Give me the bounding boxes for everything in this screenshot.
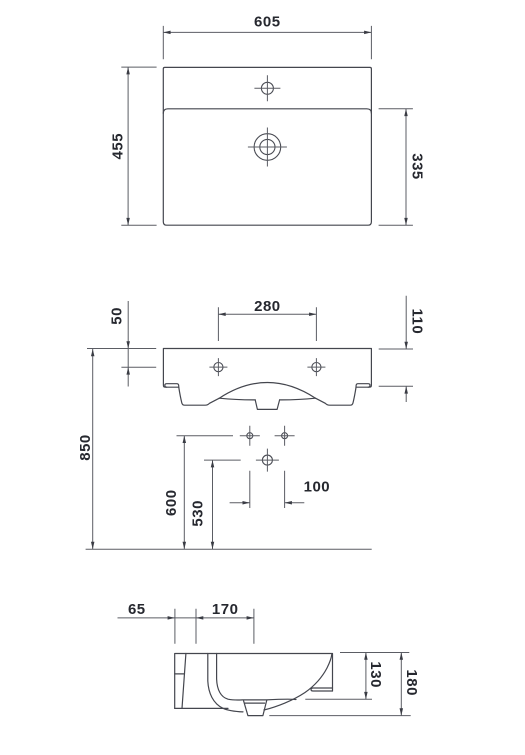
dim 455 line	[127, 67, 129, 225]
svg-text:605: 605	[254, 13, 281, 30]
lens bottom left segment	[219, 398, 255, 400]
dim 600 extension line	[177, 435, 234, 437]
dim 530 arrow top	[211, 460, 215, 467]
dim 455 arrow bottom	[126, 218, 130, 225]
dim 605 extension lines	[163, 26, 371, 59]
dim 110 extension lines	[379, 349, 413, 386]
dim 110 arrow down	[404, 342, 408, 349]
drain connector circle	[262, 455, 272, 465]
dim 50 arrow down (at top edge)	[126, 341, 130, 348]
dim 130 arrow top	[364, 653, 368, 660]
svg-text:600: 600	[163, 489, 180, 516]
front rim ledge bar	[311, 688, 333, 691]
svg-text:100: 100	[304, 479, 331, 496]
back wall inner slanted line	[182, 654, 186, 709]
dim 850 arrow bottom	[91, 542, 95, 549]
dim 180 arrow top	[400, 653, 404, 660]
svg-text:850: 850	[77, 434, 94, 461]
svg-text:170: 170	[212, 601, 239, 618]
svg-text:455: 455	[110, 133, 127, 160]
dim 280 line	[218, 313, 316, 315]
dim 605 line	[163, 31, 371, 33]
svg-text:180: 180	[403, 669, 420, 696]
faucet hole crosshair	[254, 75, 280, 101]
water connector right circle	[282, 433, 288, 439]
left lower drop profile	[179, 387, 220, 405]
dim 110 arrow up	[404, 386, 408, 393]
dim 130 line	[365, 653, 367, 700]
dim 130 arrow bottom	[364, 692, 368, 699]
dim 180 arrow bottom	[400, 708, 404, 715]
drain trapezoid (front)	[255, 400, 279, 410]
drain outer circle (plan)	[254, 134, 281, 161]
floor line	[86, 548, 372, 550]
water connector left crosshair	[240, 426, 260, 446]
dim 130/180 top extension line	[340, 652, 409, 654]
basin outer rectangle (plan)	[163, 67, 371, 225]
right mounting step bar	[356, 384, 370, 388]
svg-text:335: 335	[409, 153, 426, 180]
back wall outer edge	[174, 654, 176, 709]
right fixing hole circle	[312, 363, 321, 372]
dim 850 line	[92, 349, 94, 549]
svg-text:530: 530	[190, 500, 207, 527]
dim 335 extension lines	[379, 109, 413, 225]
dim 100 extension lines	[250, 471, 285, 508]
dim 605 arrow left	[163, 31, 170, 35]
dim 50 arrow up (at hole line)	[126, 367, 130, 374]
dim 50 extension lines	[87, 349, 156, 368]
dim 600 line	[183, 436, 185, 549]
basin front outline	[163, 349, 371, 388]
grand sweep outer curve	[208, 654, 332, 712]
dim 65/170 line	[118, 617, 254, 619]
inner bowl curve	[217, 654, 296, 701]
dim 110 line	[405, 296, 407, 402]
dim 65/170 extension lines	[175, 609, 254, 644]
dim 170 arrow right end	[247, 616, 254, 620]
svg-text:130: 130	[367, 661, 384, 688]
dim 280 arrow left	[218, 312, 225, 316]
faucet hole circle (plan)	[261, 82, 273, 94]
dim 180 line	[400, 653, 402, 716]
water connector left circle	[247, 433, 253, 439]
dim 335 arrow top	[404, 109, 408, 116]
right lower drop profile	[316, 387, 357, 405]
dim 335 line	[405, 109, 407, 225]
dim 100 arrow right-pointing	[243, 501, 250, 505]
dim 455 extension lines	[121, 67, 156, 225]
dim 65 arrow (tip right at back face)	[168, 616, 175, 620]
dim 100 leader right	[285, 502, 305, 504]
svg-text:50: 50	[109, 307, 126, 325]
dim 605 arrow right	[364, 31, 371, 35]
dim 100 arrow left-pointing	[285, 501, 292, 505]
lens bottom right segment	[280, 398, 316, 400]
dim 530 extension line	[204, 459, 241, 461]
left fixing hole crosshair	[209, 358, 227, 376]
drain inner circle (plan)	[260, 139, 275, 154]
svg-text:110: 110	[408, 308, 425, 334]
dim 280 extension lines	[218, 307, 316, 341]
dim 130 bottom extension line	[305, 698, 372, 700]
drain connector crosshair	[256, 449, 279, 472]
side outline top edge	[175, 654, 332, 692]
svg-text:65: 65	[128, 601, 146, 618]
dim 100 leader left	[230, 502, 250, 504]
left mounting step bar	[165, 384, 179, 388]
dim 280 arrow right	[309, 312, 316, 316]
bottom arch curve	[219, 383, 315, 399]
drain stub (side)	[244, 701, 267, 716]
dim 600 arrow top	[183, 436, 187, 443]
dim 180 bottom extension line	[269, 715, 410, 717]
dim 530 line	[212, 460, 214, 549]
back bottom line	[175, 707, 228, 709]
water connector right crosshair	[275, 426, 295, 446]
dim 50 line	[127, 301, 129, 387]
dim 850 arrow top	[91, 349, 95, 356]
dim 170 arrow left end	[196, 616, 203, 620]
drain crosshair	[248, 128, 287, 167]
dim 455 arrow top	[126, 67, 130, 74]
left fixing hole circle	[214, 363, 223, 372]
bowl rim inner line (plan)	[163, 109, 371, 114]
dim 600 arrow bottom	[183, 542, 187, 549]
svg-text:280: 280	[254, 298, 281, 315]
dim 335 arrow bottom	[404, 218, 408, 225]
right fixing hole crosshair	[307, 358, 325, 376]
dim 530 arrow bottom	[211, 542, 215, 549]
back wall tick	[175, 673, 185, 675]
